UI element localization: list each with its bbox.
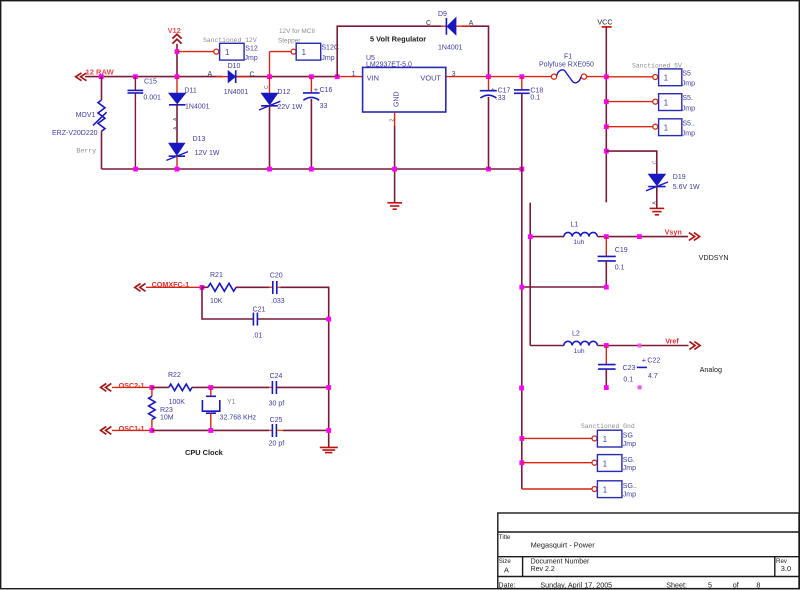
svg-text:Jmp: Jmp	[682, 81, 695, 88]
node bus D12	[267, 74, 272, 79]
svg-text:4.7: 4.7	[648, 373, 658, 380]
svg-text:D10: D10	[228, 63, 241, 70]
svg-text:C17: C17	[498, 87, 511, 94]
svg-text:C25: C25	[270, 417, 283, 424]
wire OSC1 row	[152, 429, 269, 431]
node L1 C19	[604, 234, 609, 239]
node vout C17	[486, 74, 491, 79]
svg-text:1uh: 1uh	[574, 348, 585, 355]
svg-text:S5..: S5..	[682, 120, 695, 127]
wire L1 to Vsyn	[597, 236, 688, 238]
svg-text:Jmp: Jmp	[682, 105, 695, 112]
node R23 top	[150, 385, 155, 390]
node rail C17	[486, 167, 491, 172]
capacitor C19	[598, 237, 628, 287]
port OSC1-1	[101, 424, 145, 435]
svg-text:3.0: 3.0	[781, 564, 791, 573]
svg-text:Jmp: Jmp	[623, 441, 636, 448]
svg-text:D19: D19	[673, 174, 686, 181]
svg-text:+: +	[314, 85, 319, 94]
ground symbol CPU clock	[320, 447, 338, 452]
varistor MOV1	[52, 77, 107, 169]
svg-text:S5: S5	[682, 70, 691, 77]
wire S12C riser	[269, 52, 271, 77]
resistor R23	[149, 387, 174, 430]
svg-text:MOV1: MOV1	[76, 112, 96, 119]
title block	[498, 513, 799, 589]
svg-text:Analog: Analog	[700, 365, 722, 374]
capacitor C15	[128, 77, 162, 169]
svg-text:1: 1	[603, 486, 607, 495]
svg-text:0.1: 0.1	[623, 377, 633, 384]
svg-text:C: C	[653, 160, 659, 164]
wire ground rail	[102, 168, 522, 170]
svg-text:1: 1	[302, 48, 306, 57]
svg-text:1: 1	[664, 98, 668, 107]
svg-text:1: 1	[664, 124, 668, 133]
svg-text:R22: R22	[168, 372, 181, 379]
svg-text:1: 1	[603, 459, 607, 468]
node V12 junction	[175, 49, 180, 54]
jumper SG..	[592, 481, 637, 499]
svg-text:Y1: Y1	[227, 399, 236, 406]
svg-text:Jmp: Jmp	[245, 55, 258, 62]
svg-text:C: C	[250, 71, 255, 78]
svg-text:D11: D11	[184, 88, 196, 95]
port 12RAW chevron	[76, 73, 87, 81]
node C23 bottom	[604, 385, 609, 390]
wire D10 anode lead	[216, 76, 228, 78]
diode D10	[208, 63, 255, 96]
svg-text:C21: C21	[253, 306, 266, 313]
wire C20 to corner	[280, 287, 329, 447]
wire bus D12 node to VIN node	[270, 76, 338, 78]
svg-text:F1: F1	[564, 54, 572, 61]
svg-text:Date:: Date:	[498, 581, 515, 590]
node rail GND	[392, 167, 397, 172]
zener D19	[646, 160, 700, 208]
wire main 12V bus	[85, 76, 223, 78]
svg-text:5: 5	[708, 581, 712, 590]
node vcc jumper1	[604, 74, 609, 79]
svg-text:C16: C16	[320, 87, 333, 94]
wire L2 to Vref	[597, 345, 688, 347]
wire OSC1 stub	[112, 429, 152, 431]
svg-text:C19: C19	[615, 247, 628, 254]
svg-text:D13: D13	[193, 136, 206, 143]
wire D19 branch	[606, 151, 657, 174]
node rail D13	[175, 167, 180, 172]
ground symbol U5	[387, 203, 402, 209]
node return right	[604, 285, 609, 290]
node vcc D19	[604, 149, 609, 154]
svg-text:V12: V12	[168, 26, 181, 35]
svg-text:33: 33	[320, 103, 328, 110]
node vcc jumper2	[604, 99, 609, 104]
svg-text:C18: C18	[530, 87, 543, 94]
svg-text:100K: 100K	[169, 399, 186, 406]
svg-text:A: A	[469, 20, 474, 27]
svg-text:1N4001: 1N4001	[438, 44, 463, 51]
node gnd jumper2	[519, 460, 524, 465]
fuse F1	[539, 54, 594, 83]
svg-text:1: 1	[225, 48, 229, 57]
port OSC2-1	[101, 381, 145, 392]
regulator U5	[352, 55, 456, 112]
svg-text:C15: C15	[144, 79, 157, 86]
node gnd jumper1	[519, 436, 524, 441]
svg-text:8: 8	[756, 581, 760, 590]
capacitor C17	[480, 77, 511, 169]
svg-text:Jmp: Jmp	[682, 131, 695, 138]
svg-text:1: 1	[352, 71, 356, 78]
capacitor C22	[637, 355, 661, 380]
zener D12	[259, 77, 303, 169]
svg-text:S5.: S5.	[682, 95, 693, 102]
node R23 bottom	[150, 428, 155, 433]
wire jumper S5. stub	[606, 101, 652, 103]
svg-text:Sanctioned Gnd: Sanctioned Gnd	[581, 423, 635, 430]
svg-text:VCC: VCC	[597, 18, 612, 27]
svg-text:SG..: SG..	[623, 483, 637, 490]
svg-text:C22: C22	[647, 357, 660, 364]
node bus C16	[309, 74, 314, 79]
svg-text:of: of	[733, 581, 739, 590]
node Y1 bottom	[208, 428, 213, 433]
svg-text:D9: D9	[438, 11, 447, 18]
svg-text:C20: C20	[270, 273, 283, 280]
svg-text:C24: C24	[270, 373, 283, 380]
svg-text:ERZ-V20D220: ERZ-V20D220	[52, 130, 98, 137]
node rail D12	[267, 167, 272, 172]
label 12V for MCII Stepper	[278, 28, 315, 45]
resistor R21	[202, 272, 236, 305]
svg-text:Rev 2.2: Rev 2.2	[531, 566, 555, 573]
svg-text:30 pf: 30 pf	[269, 401, 285, 408]
svg-text:C: C	[264, 85, 270, 89]
node OSC1 right	[326, 428, 331, 433]
wire jumper S5.. stub	[606, 126, 652, 128]
svg-text:Document Number: Document Number	[531, 559, 590, 566]
node Y1 top	[208, 385, 213, 390]
svg-text:2: 2	[390, 119, 396, 122]
svg-text:12V 1W: 12V 1W	[195, 150, 220, 157]
node C21 right	[326, 317, 331, 322]
node L2 C23	[604, 343, 609, 348]
svg-text:CPU Clock: CPU Clock	[185, 448, 224, 457]
svg-text:Sheet:: Sheet:	[666, 581, 687, 590]
node C22 bottom	[638, 385, 642, 389]
power symbol V12	[168, 26, 182, 77]
wire OSC2 to R22	[152, 386, 169, 388]
svg-text:C: C	[426, 20, 431, 27]
svg-text:.33: .33	[496, 95, 506, 102]
capacitor C20	[236, 273, 285, 305]
svg-text:0.001: 0.001	[143, 94, 161, 101]
svg-text:Vsyn: Vsyn	[665, 228, 682, 237]
capacitor C18	[514, 77, 543, 169]
ground symbol D19	[650, 208, 665, 214]
svg-text:20 pf: 20 pf	[269, 441, 285, 448]
svg-text:Jmp: Jmp	[623, 491, 636, 498]
node gndline y388	[519, 386, 524, 391]
wire R22 to C24	[192, 386, 269, 388]
svg-text:D12: D12	[277, 89, 290, 96]
wire C19 return	[522, 286, 607, 288]
svg-text:VIN: VIN	[367, 73, 379, 82]
capacitor C24	[269, 373, 329, 408]
svg-text:10K: 10K	[210, 298, 223, 305]
wire jumper S5 stub	[606, 76, 652, 78]
node C24 right	[326, 385, 331, 390]
wire L1 row	[530, 236, 564, 238]
wire F1 to VCC	[587, 76, 607, 78]
node rail C18	[519, 167, 524, 172]
svg-text:5.6V 1W: 5.6V 1W	[673, 184, 700, 191]
node vout C18	[519, 74, 524, 79]
port Vsyn	[665, 228, 700, 241]
svg-text:+: +	[491, 85, 496, 94]
wire OSC2 stub	[112, 386, 152, 388]
wire S12C jumper stub	[270, 51, 292, 53]
svg-text:LM2937ET-5.0: LM2937ET-5.0	[366, 62, 412, 69]
node bus C15	[133, 74, 138, 79]
jumper S5.	[653, 94, 695, 113]
svg-text:1N4001: 1N4001	[224, 89, 249, 96]
svg-text:.01: .01	[253, 333, 263, 340]
jumper S12	[214, 43, 258, 62]
power symbol VCC	[597, 18, 612, 203]
inductor L1	[564, 222, 598, 246]
svg-text:OSC2-1: OSC2-1	[119, 381, 145, 390]
wire jumper SG. stub	[522, 462, 592, 464]
svg-text:C23: C23	[623, 365, 636, 372]
node R21 left	[200, 285, 205, 290]
jumper SG.	[592, 455, 636, 473]
port COMXFC-1	[135, 280, 189, 291]
svg-text:A: A	[504, 565, 509, 574]
node bus MOV1	[99, 74, 104, 79]
svg-text:0.1: 0.1	[530, 94, 540, 101]
wire vcc branch vertical	[529, 203, 531, 346]
svg-text:Jmp: Jmp	[321, 55, 334, 62]
crystal Y1	[202, 387, 256, 430]
node return left	[519, 285, 524, 290]
svg-text:A: A	[208, 71, 213, 78]
port Vref	[665, 336, 700, 349]
svg-text:Sunday, April 17, 2005: Sunday, April 17, 2005	[540, 581, 612, 590]
svg-text:Berry: Berry	[76, 147, 96, 154]
title block texts	[498, 534, 791, 590]
svg-text:SG.: SG.	[623, 457, 635, 464]
capacitor C25	[269, 417, 329, 448]
svg-text:VOUT: VOUT	[420, 73, 441, 82]
svg-text:L1: L1	[571, 222, 579, 229]
svg-text:12V for MCII: 12V for MCII	[279, 28, 315, 35]
svg-text:Size: Size	[499, 558, 512, 565]
node rail C16	[309, 167, 314, 172]
node C22 top	[637, 344, 641, 348]
jumper S5..	[653, 119, 695, 138]
jumper S12C	[291, 43, 339, 62]
wire ground vertical	[521, 169, 523, 489]
wire COMXFC stub	[146, 286, 202, 288]
node rail C15	[133, 167, 138, 172]
jumper SG	[592, 430, 636, 448]
svg-text:1: 1	[603, 435, 607, 444]
wire jumper SG.. stub	[522, 488, 592, 490]
wire S12 jumper stub	[177, 51, 214, 53]
svg-text:OSC1-1: OSC1-1	[119, 424, 145, 433]
svg-text:Jmp: Jmp	[623, 465, 636, 472]
svg-text:SG: SG	[623, 433, 633, 440]
svg-text:1: 1	[664, 74, 668, 83]
node bus D11	[175, 74, 180, 79]
wire D9 bypass top	[337, 26, 488, 76]
svg-text:32.768 KHz: 32.768 KHz	[220, 415, 257, 422]
jumper S5	[653, 69, 695, 88]
wire D10 cathode to D12 node	[236, 76, 270, 78]
svg-text:Vref: Vref	[665, 336, 679, 345]
wire C21 row	[202, 287, 253, 319]
svg-text:S12: S12	[245, 46, 258, 53]
svg-text:R23: R23	[160, 407, 173, 414]
capacitor C16	[303, 77, 333, 169]
wire U5 GND pin	[390, 112, 396, 202]
wire VIN pin stub	[337, 76, 362, 78]
svg-text:S12C: S12C	[321, 45, 339, 52]
resistor R22	[168, 372, 192, 406]
svg-text:VDDSYN: VDDSYN	[699, 253, 729, 262]
svg-text:Polyfuse RXE050: Polyfuse RXE050	[539, 61, 594, 68]
wire jumper SG stub	[522, 437, 592, 439]
node bus D9 riser	[335, 74, 340, 79]
node vcc jumper3	[604, 124, 609, 129]
svg-text:.033: .033	[271, 298, 285, 305]
svg-text:5 Volt Regulator: 5 Volt Regulator	[370, 34, 426, 43]
svg-text:R21: R21	[210, 272, 223, 279]
wire VOUT rail	[446, 76, 552, 78]
svg-text:GND: GND	[393, 91, 400, 107]
node L1 branch	[528, 234, 533, 239]
inductor L2	[564, 331, 598, 355]
svg-text:0.1: 0.1	[615, 265, 625, 272]
capacitor C23	[598, 346, 636, 388]
svg-text:1uh: 1uh	[573, 239, 584, 246]
zener D13	[166, 136, 219, 169]
svg-text:10M: 10M	[160, 415, 174, 422]
svg-text:+: +	[642, 355, 647, 364]
svg-text:L2: L2	[572, 331, 580, 338]
wire L2 row	[530, 345, 564, 347]
wire D10 cathode lead	[236, 76, 249, 78]
node Vsyn mid	[637, 234, 642, 239]
svg-text:22V 1W: 22V 1W	[277, 104, 302, 111]
svg-text:Sanctioned 12V: Sanctioned 12V	[203, 37, 257, 44]
svg-text:1N4001: 1N4001	[185, 104, 210, 111]
capacitor C21	[253, 306, 329, 339]
svg-text:Title: Title	[499, 534, 511, 541]
svg-text:Stepper: Stepper	[278, 38, 301, 45]
diode D9	[426, 11, 474, 51]
svg-text:Megasquirt - Power: Megasquirt - Power	[531, 540, 596, 549]
diode D11	[169, 77, 210, 143]
